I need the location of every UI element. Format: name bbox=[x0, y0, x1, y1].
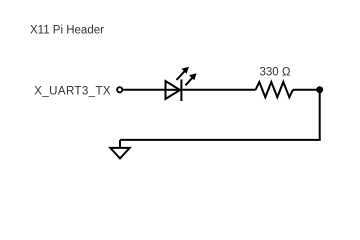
LED emission arrow 2 bbox=[186, 73, 197, 85]
terminal pin (open circle) bbox=[117, 87, 122, 92]
junction dot bbox=[316, 86, 323, 93]
wire junction down bbox=[319, 90, 321, 140]
LED D1 cathode bar bbox=[180, 79, 182, 101]
LED emission arrow 1 bbox=[177, 67, 189, 80]
wire down to ground bbox=[119, 140, 121, 148]
wire resistor to junction bbox=[293, 89, 320, 91]
svg-text:X_UART3_TX: X_UART3_TX bbox=[34, 85, 111, 97]
LED D1 triangle (anode) bbox=[166, 81, 181, 99]
wire terminal to LED anode bbox=[123, 89, 165, 91]
resistor R1 330 ohm zigzag bbox=[256, 82, 293, 97]
svg-text:X11 Pi Header: X11 Pi Header bbox=[30, 25, 104, 37]
wire LED cathode to resistor bbox=[181, 89, 255, 91]
svg-text:330 Ω: 330 Ω bbox=[260, 67, 291, 79]
wire through LED bbox=[166, 89, 182, 91]
wire bottom horizontal bbox=[120, 139, 321, 141]
ground symbol bbox=[110, 148, 129, 159]
